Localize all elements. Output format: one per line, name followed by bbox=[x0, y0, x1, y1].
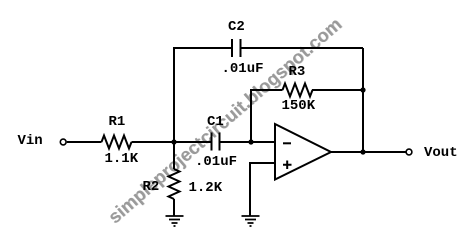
label C1 bbox=[207, 115, 224, 129]
wire C1 to node B bbox=[221, 141, 251, 143]
value label .01uF for C2 bbox=[222, 62, 264, 76]
wire op-amp non-inverting input to ground bbox=[250, 163, 275, 216]
op-amp non-inverting input marker bbox=[283, 161, 292, 170]
wire R1 to node A bbox=[132, 141, 211, 143]
wire node A down to R2 bbox=[173, 142, 175, 169]
wire output branch vertical bbox=[362, 48, 364, 152]
node output junction bbox=[360, 149, 365, 154]
value label 1.1K bbox=[105, 152, 139, 166]
node A junction bbox=[171, 139, 176, 144]
wire R2 to ground bbox=[173, 199, 175, 216]
wire node B to op-amp inverting input bbox=[252, 141, 275, 143]
label Vout bbox=[424, 146, 458, 160]
label R1 bbox=[109, 115, 126, 129]
label R2 bbox=[143, 180, 160, 194]
label R3 bbox=[289, 65, 306, 79]
resistor R3 bbox=[283, 84, 313, 97]
op-amp U1 bbox=[275, 124, 331, 180]
wire R3 to output branch bbox=[312, 89, 363, 91]
value label 1.2K bbox=[189, 181, 223, 195]
wire node B up to R3 bbox=[251, 90, 283, 142]
value label 150K bbox=[282, 99, 316, 113]
label Vin bbox=[18, 134, 43, 148]
node R3 feedback junction bbox=[360, 87, 365, 92]
capacitor C2 bbox=[232, 39, 241, 57]
ground for R2 bbox=[166, 216, 184, 226]
label C2 bbox=[228, 20, 245, 34]
capacitor C1 bbox=[212, 133, 220, 151]
resistor R1 bbox=[102, 136, 132, 149]
ground for non-inverting input bbox=[242, 216, 260, 226]
node B junction bbox=[248, 139, 253, 144]
op-amp inverting input marker bbox=[283, 142, 291, 144]
wire node A up to C2 bbox=[174, 48, 231, 142]
wire C2 to output branch bbox=[242, 47, 364, 49]
value label .01uF for C1 bbox=[195, 155, 237, 169]
watermark simpleprojectcircuit.blogspot.com bbox=[105, 15, 345, 227]
resistor R2 bbox=[169, 169, 180, 199]
wire op-amp output to Vout bbox=[331, 151, 406, 153]
terminal Vout bbox=[406, 149, 412, 155]
wire Vin terminal to R1 bbox=[67, 141, 102, 143]
terminal Vin bbox=[60, 139, 66, 145]
